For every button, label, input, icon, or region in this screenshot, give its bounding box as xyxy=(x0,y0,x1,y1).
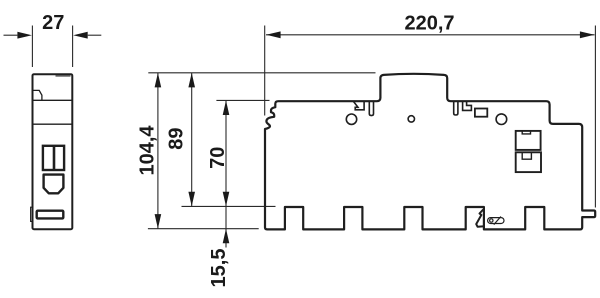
svg-text:15,5: 15,5 xyxy=(208,249,230,288)
svg-text:89: 89 xyxy=(166,127,188,149)
svg-text:104,4: 104,4 xyxy=(136,125,158,176)
svg-text:70: 70 xyxy=(207,147,229,169)
svg-text:27: 27 xyxy=(42,12,64,34)
svg-text:220,7: 220,7 xyxy=(404,12,454,34)
